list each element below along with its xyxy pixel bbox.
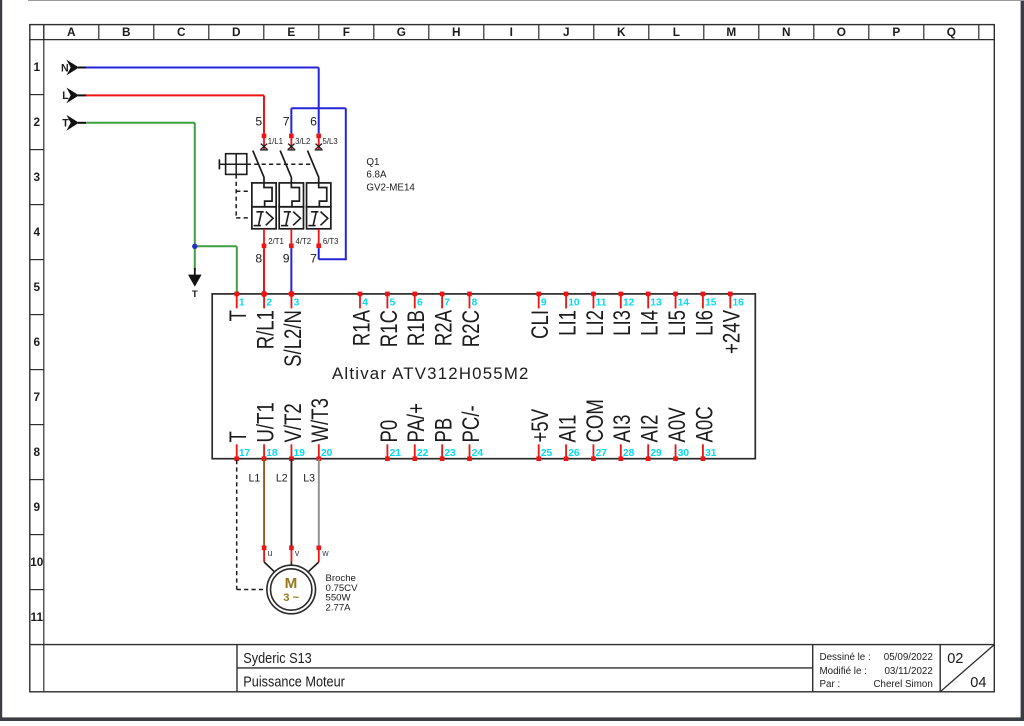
svg-text:05/09/2022: 05/09/2022 xyxy=(884,652,933,663)
svg-text:AI3: AI3 xyxy=(609,415,636,443)
motor terminal w xyxy=(317,546,330,563)
svg-text:A0C: A0C xyxy=(691,406,718,442)
svg-text:I: I xyxy=(510,25,513,39)
svg-text:E: E xyxy=(287,25,295,39)
svg-text:25: 25 xyxy=(541,448,553,459)
svg-text:L2: L2 xyxy=(276,473,288,485)
wire L3 (grey) pin20 to motor w xyxy=(318,459,320,546)
breaker Q1 mechanism linkage (dashed) xyxy=(236,164,313,218)
svg-text:T: T xyxy=(225,310,252,321)
svg-text:R/L1: R/L1 xyxy=(252,310,279,349)
pin 23 (PB) xyxy=(430,418,457,461)
svg-text:8: 8 xyxy=(34,445,41,459)
svg-text:Puissance Moteur: Puissance Moteur xyxy=(243,673,345,689)
svg-text:7: 7 xyxy=(34,390,41,404)
svg-text:Q1: Q1 xyxy=(366,157,379,168)
wire T (green) input to junction xyxy=(86,123,195,247)
svg-text:27: 27 xyxy=(596,448,608,459)
wire L (red) input to Q1 pole1 top xyxy=(86,95,264,133)
svg-text:C: C xyxy=(177,25,186,39)
svg-text:LI6: LI6 xyxy=(691,310,718,336)
svg-text:3 ~: 3 ~ xyxy=(283,592,299,604)
svg-text:5: 5 xyxy=(34,280,41,294)
pin 11 (LI2) xyxy=(582,292,609,336)
title block xyxy=(30,645,995,692)
pin 3 (S/L2/N) xyxy=(280,291,307,367)
svg-text:21: 21 xyxy=(390,448,402,459)
wire T (green) junction to U1 pin1 xyxy=(195,246,237,292)
svg-text:02: 02 xyxy=(947,651,963,667)
svg-text:9: 9 xyxy=(283,251,290,265)
pin 29 (AI2) xyxy=(636,415,663,461)
svg-text:A: A xyxy=(67,25,76,39)
pin 20 (W/T3) xyxy=(307,398,334,461)
wire 6 (blue) Q1 pole3 bottom to pole2 top bypass xyxy=(291,108,345,260)
svg-text:LI1: LI1 xyxy=(554,310,581,336)
svg-text:10: 10 xyxy=(568,297,580,308)
title block: sheet number cell xyxy=(940,645,994,692)
pin 27 (COM) xyxy=(582,399,609,461)
svg-text:GV2-ME14: GV2-ME14 xyxy=(366,183,415,194)
svg-text:+5V: +5V xyxy=(527,408,554,442)
svg-text:6: 6 xyxy=(34,335,41,349)
svg-text:AI2: AI2 xyxy=(636,415,663,443)
svg-text:+24V: +24V xyxy=(718,309,745,354)
svg-text:W/T3: W/T3 xyxy=(307,398,334,442)
node T (earth input arrow) xyxy=(62,115,86,131)
svg-text:Syderic S13: Syderic S13 xyxy=(243,650,311,666)
svg-text:R2C: R2C xyxy=(458,310,485,347)
svg-text:23: 23 xyxy=(444,448,456,459)
svg-text:S/L2/N: S/L2/N xyxy=(280,310,307,367)
page bottom edge bar xyxy=(0,717,1024,721)
pin 10 (LI1) xyxy=(554,292,581,336)
breaker Q1 pole 1 xyxy=(252,134,284,249)
svg-text:24: 24 xyxy=(472,448,484,459)
svg-text:J: J xyxy=(563,25,570,39)
svg-text:Cherel Simon: Cherel Simon xyxy=(873,679,932,690)
node N (neutral input arrow) xyxy=(61,60,86,76)
svg-text:2.77A: 2.77A xyxy=(326,602,352,613)
motor terminal v xyxy=(289,546,300,563)
motor M1 (3~) xyxy=(267,565,316,614)
svg-text:K: K xyxy=(617,25,626,39)
svg-text:11: 11 xyxy=(596,297,607,308)
pin 7 (R2A) xyxy=(430,292,457,347)
svg-text:w: w xyxy=(321,548,329,558)
svg-text:6: 6 xyxy=(310,115,317,129)
svg-text:Modifié le :: Modifié le : xyxy=(820,666,867,677)
svg-text:v: v xyxy=(295,548,300,558)
svg-text:16: 16 xyxy=(732,297,744,308)
svg-text:11: 11 xyxy=(31,610,44,624)
title block: sheet title xyxy=(243,673,345,689)
wire 8 (red) Q1 pole1 bottom to U1 pin2 xyxy=(263,248,265,292)
pin 15 (LI6) xyxy=(691,292,718,336)
pin 5 (R1C) xyxy=(376,292,403,348)
svg-text:Q: Q xyxy=(947,25,956,39)
svg-text:20: 20 xyxy=(321,448,333,459)
svg-text:04: 04 xyxy=(970,675,986,691)
pin 2 (R/L1) xyxy=(252,291,279,349)
breaker Q1 actuator handle xyxy=(219,154,246,175)
svg-text:5: 5 xyxy=(390,297,396,308)
svg-text:4/T2: 4/T2 xyxy=(296,237,312,246)
svg-text:4: 4 xyxy=(34,225,41,239)
pin 17 (T) xyxy=(225,431,252,461)
svg-text:3: 3 xyxy=(34,170,41,184)
pin 19 (V/T2) xyxy=(280,403,307,461)
svg-text:12: 12 xyxy=(623,297,635,308)
breaker Q1 pole 2 xyxy=(279,134,311,249)
svg-text:PC/-: PC/- xyxy=(458,405,485,442)
wire L2 (black) pin19 to motor v xyxy=(290,459,292,546)
svg-text:5: 5 xyxy=(255,115,262,129)
svg-text:13: 13 xyxy=(650,297,662,308)
svg-text:N: N xyxy=(782,25,791,39)
svg-text:15: 15 xyxy=(705,297,717,308)
pin 1 (T) xyxy=(225,292,252,322)
svg-text:8: 8 xyxy=(255,251,262,265)
label Q1 value block xyxy=(366,157,415,194)
pin 14 (LI5) xyxy=(664,292,691,336)
wire N (blue) input to Q1 pole3 top xyxy=(86,68,319,134)
svg-text:5/L3: 5/L3 xyxy=(323,137,338,146)
svg-text:7: 7 xyxy=(310,251,317,265)
svg-text:6.8A: 6.8A xyxy=(366,170,387,181)
pin 26 (AI1) xyxy=(554,415,581,461)
svg-text:6: 6 xyxy=(417,297,423,308)
svg-text:R2A: R2A xyxy=(430,309,457,346)
svg-text:1/L1: 1/L1 xyxy=(268,137,283,146)
svg-text:H: H xyxy=(452,25,461,39)
pin 22 (PA/+) xyxy=(403,403,430,461)
svg-text:L3: L3 xyxy=(303,473,315,485)
breaker Q1 pole 3 xyxy=(307,134,339,249)
frame row numbers 1-11 xyxy=(30,60,44,624)
svg-text:LI3: LI3 xyxy=(609,310,636,336)
svg-text:M: M xyxy=(285,575,298,592)
pin 21 (P0) xyxy=(376,420,403,461)
pin 4 (R1A) xyxy=(348,292,375,347)
svg-text:CLI: CLI xyxy=(527,310,554,339)
svg-text:L: L xyxy=(62,90,69,102)
frame column headers A-Q xyxy=(44,25,979,40)
svg-text:T: T xyxy=(192,289,198,300)
svg-text:COM: COM xyxy=(582,399,609,442)
svg-text:7: 7 xyxy=(444,297,450,308)
svg-text:3: 3 xyxy=(294,297,300,308)
svg-text:1: 1 xyxy=(239,297,245,308)
pin 9 (CLI) xyxy=(527,292,554,339)
wire 9 (blue) Q1 pole2 bottom to U1 pin3 xyxy=(290,248,292,292)
svg-text:R1B: R1B xyxy=(403,310,430,346)
title block: dates and author xyxy=(820,652,933,690)
svg-text:17: 17 xyxy=(239,448,251,459)
svg-text:V/T2: V/T2 xyxy=(280,403,307,442)
svg-text:PA/+: PA/+ xyxy=(403,403,430,442)
title block: installation name xyxy=(243,650,311,666)
pin 28 (AI3) xyxy=(609,415,636,461)
svg-text:1: 1 xyxy=(34,60,41,74)
pin 6 (R1B) xyxy=(403,292,430,347)
svg-text:4: 4 xyxy=(362,297,368,308)
svg-text:A0V: A0V xyxy=(664,407,691,443)
svg-text:T: T xyxy=(225,431,252,442)
svg-text:Dessiné le :: Dessiné le : xyxy=(820,652,871,663)
pin 8 (R2C) xyxy=(458,292,485,348)
svg-text:19: 19 xyxy=(294,448,306,459)
wire L1 (brown) pin18 to motor u xyxy=(263,459,265,546)
svg-text:M: M xyxy=(726,25,736,39)
svg-text:O: O xyxy=(837,25,846,39)
svg-text:LI5: LI5 xyxy=(664,310,691,336)
svg-text:30: 30 xyxy=(678,448,690,459)
node L (line input arrow) xyxy=(62,88,86,104)
svg-text:P: P xyxy=(892,25,900,39)
svg-text:u: u xyxy=(268,548,273,558)
svg-text:P0: P0 xyxy=(376,420,403,443)
label motor rating block xyxy=(326,573,359,613)
svg-text:9: 9 xyxy=(541,297,547,308)
page right edge bar xyxy=(1021,0,1024,721)
svg-text:U/T1: U/T1 xyxy=(252,402,279,442)
pin 24 (PC/-) xyxy=(458,405,485,461)
svg-text:PB: PB xyxy=(430,418,457,443)
op-amp U1 : Altivar drive block xyxy=(212,294,755,459)
motor feed angled leads xyxy=(264,562,319,572)
svg-text:9: 9 xyxy=(34,500,41,514)
pin 13 (LI4) xyxy=(636,292,663,336)
svg-text:31: 31 xyxy=(705,448,717,459)
svg-text:L: L xyxy=(673,25,680,39)
svg-text:26: 26 xyxy=(568,448,580,459)
pin 12 (LI3) xyxy=(609,292,636,336)
pin 25 (+5V) xyxy=(527,408,554,461)
svg-text:R1C: R1C xyxy=(376,310,403,347)
svg-text:3/L2: 3/L2 xyxy=(295,137,310,146)
pin 16 (+24V) xyxy=(718,292,745,354)
motor terminal u xyxy=(262,546,273,563)
wire PE dashed U1 pin17 to motor frame xyxy=(237,460,267,590)
wire T (green) junction to earth xyxy=(194,246,196,270)
svg-text:6/T3: 6/T3 xyxy=(323,237,339,246)
page left edge bar xyxy=(0,0,2,721)
svg-text:F: F xyxy=(343,25,350,39)
ground (earth arrow T) xyxy=(188,268,202,300)
svg-text:8: 8 xyxy=(472,297,478,308)
svg-text:LI2: LI2 xyxy=(582,310,609,336)
svg-text:Par :: Par : xyxy=(820,679,841,690)
svg-text:B: B xyxy=(122,25,131,39)
svg-text:29: 29 xyxy=(650,448,662,459)
svg-text:T: T xyxy=(62,118,69,130)
svg-text:10: 10 xyxy=(30,555,44,569)
svg-text:18: 18 xyxy=(266,448,278,459)
svg-text:22: 22 xyxy=(417,448,429,459)
svg-text:2: 2 xyxy=(34,115,41,129)
svg-text:14: 14 xyxy=(678,297,690,308)
svg-text:G: G xyxy=(397,25,406,39)
svg-text:7: 7 xyxy=(283,115,290,129)
svg-text:LI4: LI4 xyxy=(636,310,663,336)
svg-text:D: D xyxy=(232,25,241,39)
svg-text:03/11/2022: 03/11/2022 xyxy=(884,666,932,677)
pin 18 (U/T1) xyxy=(252,402,279,461)
pin 30 (A0V) xyxy=(664,407,691,461)
svg-text:2/T1: 2/T1 xyxy=(268,237,284,246)
svg-text:28: 28 xyxy=(623,448,635,459)
svg-text:L1: L1 xyxy=(249,473,261,485)
svg-text:AI1: AI1 xyxy=(554,415,581,443)
page top edge line xyxy=(28,0,1024,1)
svg-text:Altivar ATV312H055M2: Altivar ATV312H055M2 xyxy=(332,364,530,383)
svg-text:N: N xyxy=(61,62,69,74)
junction dot xyxy=(192,244,197,249)
svg-text:R1A: R1A xyxy=(348,309,375,346)
svg-text:2: 2 xyxy=(266,297,272,308)
pin 31 (A0C) xyxy=(691,406,718,461)
